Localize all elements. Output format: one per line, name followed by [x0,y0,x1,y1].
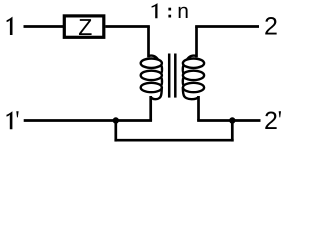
wire port 1' to primary bottom [24,119,152,122]
secondary exit lead wire [197,96,200,121]
wire Z to transformer [105,25,149,28]
bottom rail right vertical [231,121,234,142]
primary exit lead wire [149,96,152,121]
wire secondary bottom to port 2' [197,119,260,122]
primary connector 1-2 [161,65,162,73]
impedance Z box [64,16,104,37]
junction dot left [113,117,119,123]
primary entry hook [148,56,158,60]
secondary entry hook [187,56,197,60]
wire port 1 to Z [24,25,64,28]
core line right [174,54,177,98]
ratio label 1 : n [152,3,158,18]
secondary loop 2 [183,71,204,80]
secondary loop 1 [183,59,204,68]
transformer primary winding: entry lead wire [147,27,150,58]
primary loop 1 [141,59,162,68]
svg-text:Z: Z [78,14,92,40]
wire transformer to port 2 [195,25,259,28]
primary loop 2 [141,71,162,80]
junction dot right [229,117,235,123]
secondary entry lead wire [195,27,198,58]
node 1' label [7,111,13,129]
primary loop 3 [141,83,162,92]
primary connector 2-3 [161,77,162,85]
bottom rail horizontal [114,139,233,142]
secondary connector 1-2 [183,65,184,73]
svg-text:n: n [177,0,189,23]
secondary loop 3 [183,83,204,92]
secondary exit hook [183,87,199,99]
secondary connector 2-3 [183,77,184,85]
core line left [168,54,171,98]
svg-text:2: 2 [264,107,278,135]
primary exit hook [151,87,162,99]
bottom rail left vertical [114,121,117,142]
node 1 label [7,17,13,35]
svg-text:2: 2 [264,13,278,41]
